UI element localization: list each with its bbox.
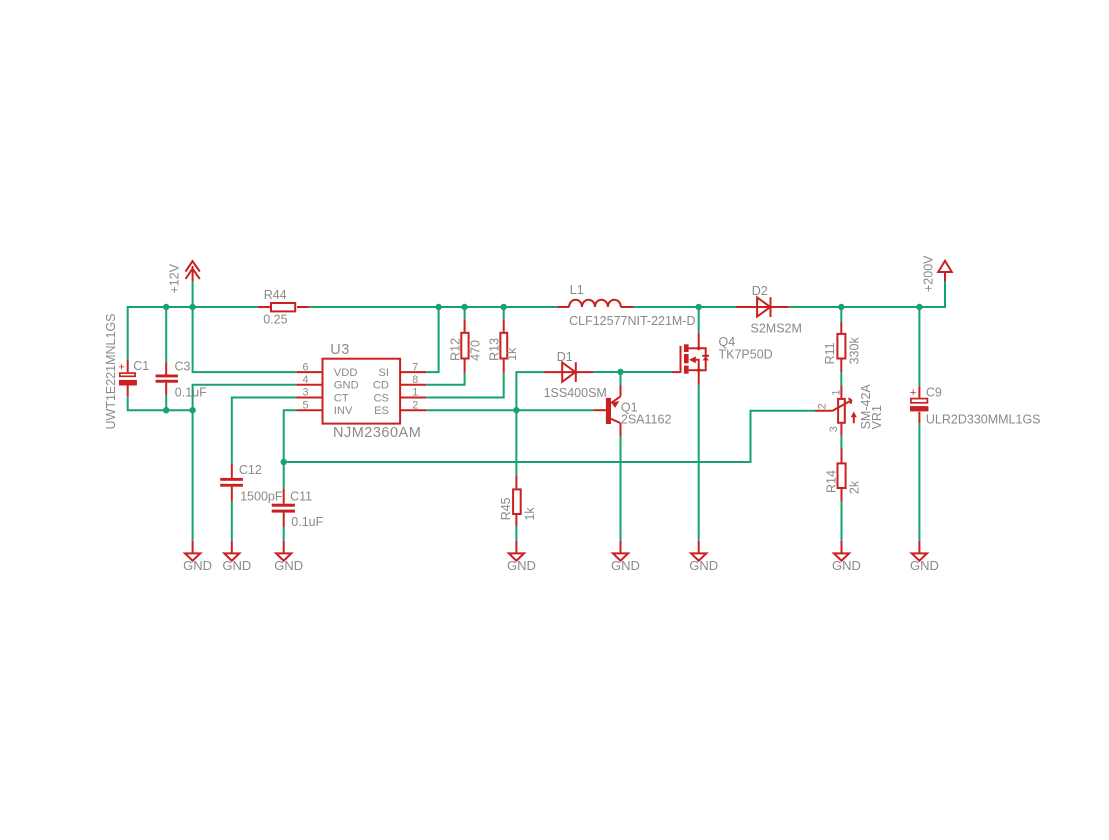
svg-text:7: 7 <box>412 361 418 373</box>
resistor R11 <box>837 322 845 372</box>
pin 2 stub <box>400 409 426 411</box>
wire INV pin5 down <box>284 410 297 462</box>
wire C9 top <box>918 307 920 386</box>
wire rail D2 to +200V corner <box>788 281 945 307</box>
wire C11 top <box>283 462 285 489</box>
svg-text:0.25: 0.25 <box>263 313 287 327</box>
svg-text:R45: R45 <box>499 497 513 520</box>
wire C3 bottom <box>165 395 167 410</box>
svg-text:+200V: +200V <box>922 255 936 292</box>
pin 3 stub <box>296 397 322 399</box>
junction rail C3 <box>163 304 169 310</box>
svg-text:CD: CD <box>373 380 389 392</box>
svg-text:C12: C12 <box>239 463 262 477</box>
wire R11 top <box>840 307 842 322</box>
svg-text:GND: GND <box>274 558 303 573</box>
svg-text:+12V: +12V <box>168 263 182 293</box>
svg-text:C3: C3 <box>175 360 191 374</box>
svg-text:CT: CT <box>334 392 349 404</box>
transistor Q1 2SA1162 <box>593 385 620 436</box>
svg-text:0.1uF: 0.1uF <box>291 515 323 529</box>
junction rail SI <box>435 304 441 310</box>
capacitor C9 <box>910 386 928 423</box>
svg-text:470: 470 <box>468 340 482 361</box>
ground GND (C9) <box>912 541 927 561</box>
potentiometer VR1 SM-42A <box>815 385 857 435</box>
wire SI pin7 to rail <box>426 307 438 372</box>
junction rail R12 <box>461 304 467 310</box>
junction rail Q4 drain <box>696 304 702 310</box>
junction rail C9 <box>916 304 922 310</box>
junction rail +12V <box>189 304 195 310</box>
svg-text:2: 2 <box>412 399 418 411</box>
svg-text:1SS400SM: 1SS400SM <box>544 386 607 400</box>
wire CD pin8 to R12 <box>426 373 464 385</box>
svg-text:6: 6 <box>302 361 308 373</box>
wire C11 bottom to ground <box>283 527 285 541</box>
resistor R44 <box>258 303 309 311</box>
ground GND (R14) <box>834 541 849 561</box>
svg-text:1: 1 <box>831 389 843 395</box>
junction bottom pin4 <box>189 407 195 413</box>
junction ES R45 <box>513 407 519 413</box>
svg-text:1500pF: 1500pF <box>240 489 283 503</box>
wire CS pin1 to R13 <box>426 373 504 398</box>
svg-text:330k: 330k <box>848 337 862 365</box>
svg-text:1k: 1k <box>523 507 537 521</box>
svg-text:R11: R11 <box>823 342 837 364</box>
wire C9 bottom to ground <box>918 423 920 541</box>
wire C12 bottom to ground <box>231 501 233 541</box>
wire C3 top <box>165 307 167 362</box>
wire rail C1 corner to R44 <box>128 307 258 360</box>
svg-text:UWT1E221MNL1GS: UWT1E221MNL1GS <box>104 313 118 429</box>
svg-text:1: 1 <box>412 387 418 399</box>
pin 7 stub <box>400 371 426 373</box>
svg-text:3: 3 <box>828 426 840 432</box>
capacitor C12 <box>220 464 243 502</box>
power flag +12V <box>186 261 200 281</box>
pin 6 stub <box>296 371 322 373</box>
transistor Q4 TK7P50D mosfet <box>672 334 709 385</box>
svg-text:CLF12577NIT-221M-D: CLF12577NIT-221M-D <box>569 314 695 328</box>
svg-text:TK7P50D: TK7P50D <box>719 348 773 362</box>
wire Q4 source to ground <box>698 385 700 541</box>
wire R14 bottom to ground <box>841 501 843 540</box>
svg-text:R13: R13 <box>488 338 502 361</box>
svg-text:U3: U3 <box>330 342 350 358</box>
svg-text:4: 4 <box>302 374 308 386</box>
wire C1 C3 bottom <box>128 396 193 410</box>
svg-text:ULR2D330MML1GS: ULR2D330MML1GS <box>926 412 1041 426</box>
capacitor C3 <box>156 362 178 395</box>
diode D2 <box>736 297 788 317</box>
svg-text:3: 3 <box>302 387 308 399</box>
resistor R14 <box>838 449 846 502</box>
junction bottom C3 <box>163 407 169 413</box>
svg-text:C11: C11 <box>290 489 312 503</box>
svg-text:2k: 2k <box>848 480 862 494</box>
svg-text:D2: D2 <box>752 284 768 298</box>
svg-text:D1: D1 <box>557 350 573 364</box>
wire VR1 to R14 <box>840 436 842 449</box>
wire ES to R45 <box>515 410 517 475</box>
svg-text:+: + <box>910 387 916 399</box>
svg-text:1k: 1k <box>505 347 519 361</box>
pin 4 stub <box>296 384 322 386</box>
svg-text:2: 2 <box>817 403 829 409</box>
pin 5 stub <box>296 409 322 411</box>
svg-text:SI: SI <box>378 367 389 379</box>
wire R45 bottom to ground <box>515 526 517 541</box>
svg-text:R14: R14 <box>824 470 838 493</box>
wire CT pin3 to C12 <box>232 398 296 464</box>
svg-text:+: + <box>118 361 124 373</box>
svg-text:R44: R44 <box>264 288 287 302</box>
ground GND (C12) <box>224 541 239 561</box>
wire D1 cathode to Q4 gate <box>593 371 672 373</box>
ground GND (R45) <box>509 541 524 561</box>
ground GND (C11) <box>276 541 291 561</box>
svg-text:GND: GND <box>222 558 251 573</box>
capacitor C1 <box>118 360 136 397</box>
svg-text:VR1: VR1 <box>870 405 884 429</box>
junction INV C11 <box>281 459 287 465</box>
inductor L1 <box>557 300 633 307</box>
ic U3 NJM2360AM <box>323 359 401 424</box>
resistor R13 <box>500 319 507 373</box>
pin 8 stub <box>400 384 426 386</box>
svg-text:GND: GND <box>689 558 718 573</box>
svg-text:C1: C1 <box>133 359 149 373</box>
wire ES pin2 to Q1 base <box>426 409 593 411</box>
wire VDD pin6 <box>193 307 297 372</box>
power flag +200V <box>938 261 952 282</box>
wire Q1 collector to ground <box>620 436 622 541</box>
svg-text:C9: C9 <box>926 385 942 399</box>
ground GND (Q4 source) <box>691 541 706 561</box>
wire Q1 emitter up <box>620 372 622 385</box>
svg-text:GND: GND <box>183 558 212 573</box>
wire GND pin4 to ground <box>193 385 297 541</box>
svg-text:GND: GND <box>334 380 359 392</box>
pin 1 stub <box>400 397 426 399</box>
svg-text:GND: GND <box>910 558 939 573</box>
svg-text:0.1uF: 0.1uF <box>175 385 207 399</box>
svg-text:INV: INV <box>334 405 353 417</box>
wire INV long feedback to VR1 wiper <box>284 411 815 462</box>
svg-text:GND: GND <box>611 558 640 573</box>
wire rail R44 to L1 <box>309 306 557 308</box>
resistor R12 <box>461 319 468 373</box>
resistor R45 <box>513 476 521 526</box>
svg-text:CS: CS <box>373 392 389 404</box>
wire R12 top <box>464 307 466 319</box>
wire R13 top <box>503 307 505 319</box>
svg-text:5: 5 <box>302 399 308 411</box>
wire +12V stem <box>192 281 194 307</box>
junction D1 Q1 emitter <box>617 369 623 375</box>
ground GND (pin4 net) <box>185 541 200 561</box>
wire D1 anode corner <box>516 372 544 410</box>
svg-text:S2MS2M: S2MS2M <box>751 321 802 335</box>
wire Q4 drain to rail <box>698 307 700 334</box>
svg-text:2SA1162: 2SA1162 <box>621 412 672 426</box>
wire rail L1 to D2 <box>634 306 737 308</box>
svg-text:GND: GND <box>832 558 861 573</box>
svg-text:NJM2360AM: NJM2360AM <box>333 425 421 441</box>
junction rail R11 <box>838 304 844 310</box>
junction rail R13 <box>501 304 507 310</box>
svg-text:GND: GND <box>507 558 536 573</box>
capacitor C11 <box>272 489 295 527</box>
svg-text:R12: R12 <box>448 338 462 361</box>
ground GND (Q1 collector) <box>613 541 628 561</box>
svg-text:VDD: VDD <box>334 367 358 379</box>
svg-text:L1: L1 <box>570 283 584 297</box>
svg-text:8: 8 <box>412 374 418 386</box>
svg-text:ES: ES <box>374 405 389 417</box>
wire R11 to VR1 <box>840 372 842 386</box>
diode D1 <box>544 362 593 382</box>
